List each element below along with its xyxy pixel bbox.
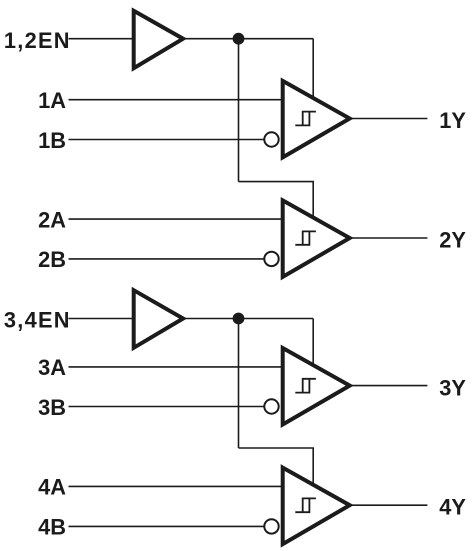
receiver U2 (channel 2) <box>283 200 350 277</box>
inverter bubble 4B <box>264 519 278 533</box>
junction dot node EN34 <box>233 313 245 325</box>
wire 2Y output <box>349 237 427 239</box>
wire 4A input <box>69 485 285 487</box>
wire 4Y output <box>349 504 427 506</box>
wire enable jog to receiver 2 <box>239 182 314 220</box>
wire 3B input <box>69 406 267 408</box>
wire 2B input <box>69 258 267 260</box>
junction dot node EN12 <box>233 33 245 45</box>
svg-text:1Y: 1Y <box>439 108 466 133</box>
svg-text:3B: 3B <box>38 395 66 420</box>
wire 3A input <box>69 366 285 368</box>
receiver U1 (channel 1) <box>283 81 350 157</box>
wire enable drop into receiver 1 <box>312 39 314 100</box>
wire 1Y output <box>349 118 427 120</box>
hysteresis symbol U1 <box>295 112 316 126</box>
wire 4B input <box>69 525 267 527</box>
wire 1B input <box>69 139 267 141</box>
svg-text:4B: 4B <box>38 514 66 539</box>
svg-text:2A: 2A <box>38 207 66 232</box>
inverter bubble 1B <box>264 132 278 146</box>
hysteresis symbol U2 <box>295 231 316 244</box>
wire node EN12 down <box>238 39 240 182</box>
receiver U3 (channel 3) <box>283 348 350 425</box>
hysteresis symbol U4 <box>295 498 316 512</box>
hysteresis symbol U3 <box>295 379 316 393</box>
wire 1,2EN input <box>69 38 135 40</box>
inverter bubble 2B <box>264 252 278 266</box>
receiver U4 (channel 4) <box>283 468 350 544</box>
svg-text:3Y: 3Y <box>439 375 466 400</box>
wire 2A input <box>69 218 285 220</box>
wire buffer G2 output to node EN34 <box>183 318 313 320</box>
svg-text:4A: 4A <box>38 474 66 499</box>
svg-text:1B: 1B <box>38 128 66 153</box>
buffer G1 (1,2EN enable buffer) <box>134 11 183 68</box>
inverter bubble 3B <box>264 399 278 413</box>
wire enable drop into receiver 3 <box>312 319 314 368</box>
svg-text:1A: 1A <box>38 88 66 113</box>
buffer G2 (3,4EN enable buffer) <box>134 290 183 348</box>
wire 3,4EN input <box>69 318 135 320</box>
wire 1A input <box>69 99 285 101</box>
svg-text:2Y: 2Y <box>439 227 466 252</box>
svg-text:2B: 2B <box>38 247 66 272</box>
wire enable jog to receiver 4 <box>239 448 314 487</box>
svg-text:4Y: 4Y <box>439 495 466 520</box>
wire node EN34 down <box>238 319 240 449</box>
wire 3Y output <box>349 385 427 387</box>
wire buffer G1 output to node EN12 <box>183 38 313 40</box>
svg-text:3,4EN: 3,4EN <box>4 308 71 333</box>
svg-text:1,2EN: 1,2EN <box>4 28 71 53</box>
svg-text:3A: 3A <box>38 355 66 380</box>
